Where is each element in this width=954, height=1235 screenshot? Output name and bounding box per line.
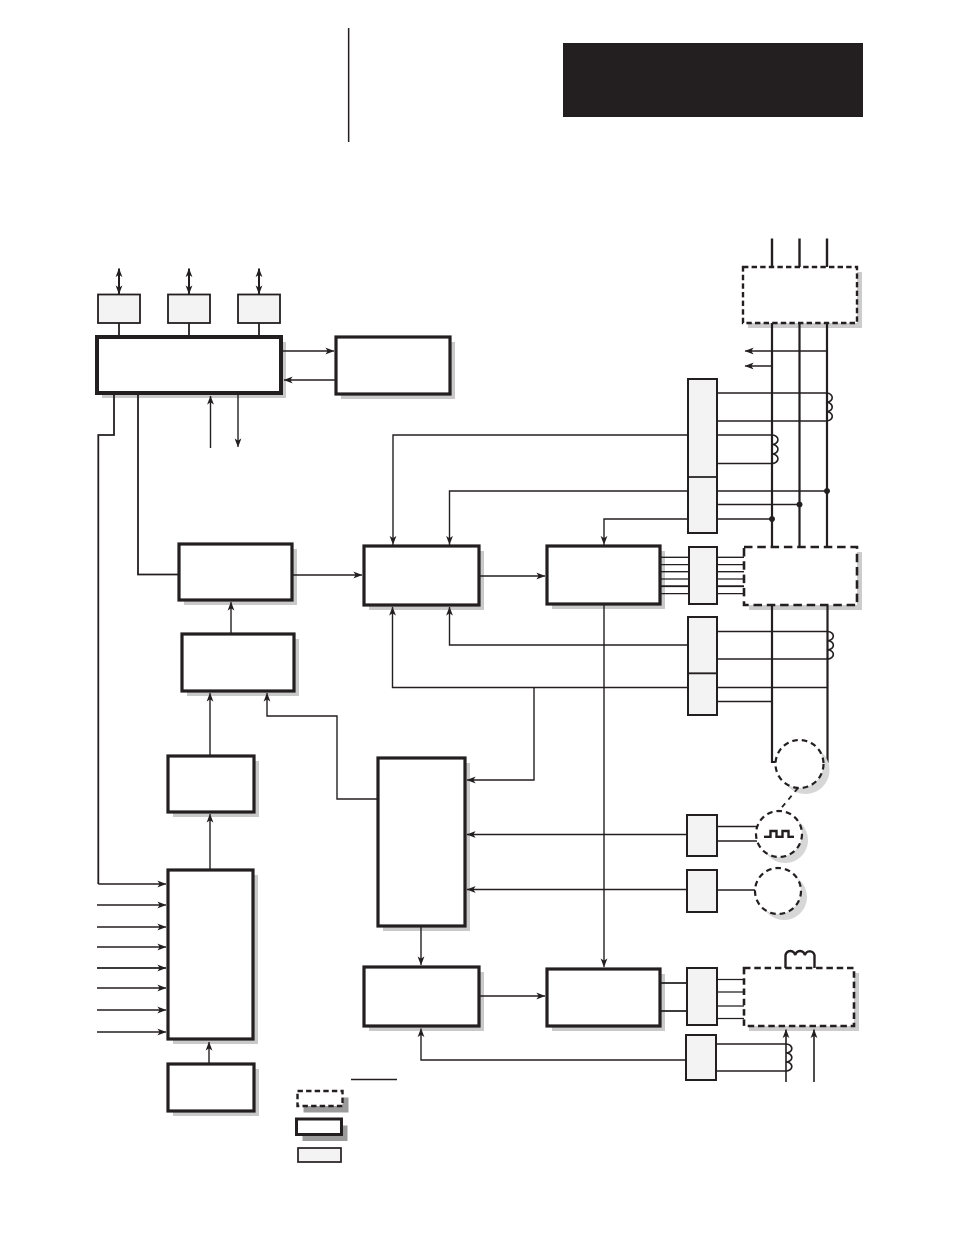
ramp box shadow [187,639,299,696]
pulse tach wire a [717,826,757,828]
armature volt tap wire 1 [716,701,772,703]
CT coil on armature wire [828,632,833,660]
field wire out 2 [717,991,744,993]
arrow ramp to speed ref [230,602,232,633]
gate wire 6 [660,593,689,595]
arrow regulator to firing [479,575,545,577]
armature bridge dashed box [744,547,857,605]
stem wire port 3 [258,323,260,337]
double arrow port 3 [258,269,260,295]
voltage tap wire phase 1 [716,518,772,520]
motor circle shadow [782,746,830,794]
wire branch armature volt to feedback right [467,688,534,781]
wire main box to logic input (long left rail) [98,394,114,884]
scaling box shadow [173,761,259,817]
square wave symbol [764,831,794,837]
logic input arrow 5 [97,967,166,969]
AC line stub L2 [798,239,800,268]
pulse tach circle [756,811,802,857]
wire feedback left to ramp bottom [267,693,378,799]
wire armature sense to regulator bottom [450,607,689,645]
page divider line [348,28,350,142]
AC input device dashed box [743,267,857,323]
junction dot phase 1 [769,516,775,522]
voltage tap wire phase 3 [716,490,827,492]
logic input arrow 2 [97,904,166,906]
legend gray item [298,1148,341,1162]
field wire J b [660,1010,687,1012]
aux box shadow [173,1069,259,1116]
current reg box shadow [369,972,484,1031]
speed ref box shadow [184,549,297,605]
arrow feedback to current reg [420,926,422,965]
phase wire 1 [771,323,773,547]
line sense connector block [688,379,717,533]
gate wire 1 [660,556,689,558]
analog tach wire [717,889,756,891]
CT coil on phase 3 [827,393,832,421]
arrow up into main box bottom [210,396,212,448]
field inductor coil [786,951,815,968]
sense wire CT2 top [716,434,772,436]
logic input arrow 6 [97,987,166,989]
legend solid item shadow [303,1126,348,1142]
gate connector block [689,547,717,604]
arrow left from phase 1 [745,365,772,367]
legend dashed item [298,1091,343,1106]
line sense connector divider [688,476,717,478]
motor armature wire 1 [771,605,773,763]
port box 1 [98,295,140,324]
main control box [97,337,281,393]
AC line stub L3 [826,239,828,268]
arrow aux to logic [208,1042,210,1063]
voltage tap wire phase 2 [716,504,800,506]
field supply dashed box shadow [749,973,859,1031]
legend solid item [297,1119,342,1135]
firing box shadow [552,551,665,609]
motor armature wire 1 foot [772,761,778,763]
armature volt tap wire 2 [716,687,828,689]
feedback box [378,758,465,926]
double arrow port 1 [118,269,120,295]
coupling dashed link [778,788,798,812]
logic box shadow [173,875,258,1044]
main control box shadow [102,342,286,398]
field reg box [547,969,660,1026]
gate wire 4 [660,578,689,580]
motor armature wire 2 [826,605,828,763]
AC input device dashed box shadow [748,272,862,328]
junction dot phase 2 [797,502,803,508]
regulator box [364,546,479,605]
gate wire 1b [717,556,744,558]
wire field sense to current reg bottom [421,1029,686,1061]
field wire out 1 [717,979,744,981]
analog tach circle [755,868,801,914]
phase wire 3 [826,323,828,547]
double arrow port 2 [188,269,190,295]
wire line volt sense to firing top [604,519,688,545]
field feed arrow into field supply [813,1030,815,1083]
motor circle [776,740,824,788]
wire line volt sense to regulator top [450,491,689,545]
port box 3 [238,295,280,324]
legend separator line [351,1079,397,1081]
sense wire CT1 top [716,392,827,394]
pulse tach wire b [717,840,757,842]
scaling box [168,756,254,812]
CT coil on phase 1 [772,435,778,464]
armature sense CT top wire [716,631,828,633]
stem wire port 1 [118,323,120,337]
gate wire 3 [660,571,689,573]
junction dot phase 3 [824,488,830,494]
armature bridge dashed box shadow [749,552,862,610]
CT coil on field wire [786,1044,792,1071]
motor armature wire 2 foot [822,761,828,763]
armature sense CT bottom wire [716,658,828,660]
logic input arrow 3 [97,926,166,928]
gate wire 5b [717,585,744,587]
field connector block [687,968,717,1025]
pulse tach connector block [687,815,717,856]
field reg box shadow [552,974,665,1031]
gate wire 2 [660,564,689,566]
analog tach connector block [687,870,717,912]
feedback box shadow [383,763,470,931]
arrow comm to main [284,379,334,381]
wire sync sense to regulator top [393,435,688,545]
field supply dashed box [744,968,854,1026]
gate wire 4b [717,578,744,580]
field wire J a [660,982,687,984]
logic input arrow 7 [97,1009,166,1011]
gate wire 5 [660,585,689,587]
arrow scaling to ramp [209,693,211,755]
pulse tach circle shadow [762,817,808,863]
field return arrow into field supply [785,1030,787,1083]
comm box [336,337,450,394]
logic input arrow 1 [98,883,166,885]
arrow left from phase 3 [745,350,827,352]
wire analog tach to feedback right [467,889,687,891]
logic input arrow 4 [97,946,166,948]
sense wire CT2 bottom [716,463,772,465]
wire pulse tach to feedback right [467,834,687,836]
wire main box to speed ref box [138,394,178,575]
field sense connector block [686,1035,716,1080]
stem wire port 2 [188,323,190,337]
header black bar [563,43,863,117]
wire firing to field reg (long vertical) [603,604,605,967]
speed ref box [179,544,292,600]
field wire out 3 [717,1005,744,1007]
current reg box [364,967,479,1026]
gate wire 2b [717,564,744,566]
field wire out 4 [717,1018,744,1020]
armature sense connector block [688,617,717,715]
legend dashed item shadow [304,1098,349,1113]
analog tach circle shadow [761,874,807,920]
gate wire 6b [717,593,744,595]
port box 2 [168,295,210,324]
regulator box shadow [369,551,484,610]
aux box [168,1064,254,1111]
armature sense connector divider [688,672,717,674]
logic box [168,870,253,1039]
comm box shadow [341,342,455,399]
field sense CT top wire [716,1043,786,1045]
ramp box [182,634,294,691]
phase wire 2 [798,323,800,547]
logic input arrow 8 [97,1031,166,1033]
arrow logic to scaling [209,814,211,869]
firing box [547,546,660,604]
field sense CT bottom wire [716,1070,786,1072]
arrow speed ref to regulator [292,574,362,576]
sense wire CT1 bottom [716,420,827,422]
arrow down from main box bottom [237,395,239,447]
AC line stub L1 [771,239,773,268]
arrow current reg to field reg [479,995,545,997]
wire armature volt sense to regulator bottom [393,607,689,688]
arrow main to comm [283,350,334,352]
gate wire 3b [717,571,744,573]
